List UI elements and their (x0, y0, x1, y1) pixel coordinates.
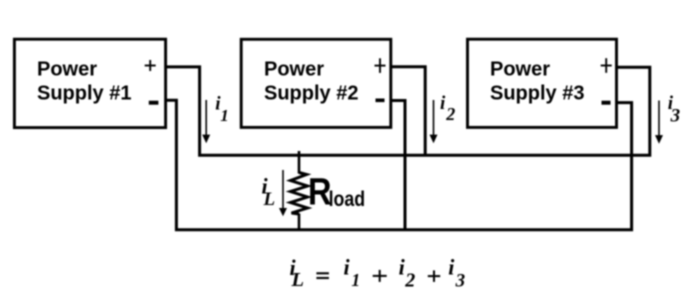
resistor Rload bottom lead (298, 214, 301, 230)
U3 plus terminal (601, 58, 612, 73)
svg-text:Supply #3: Supply #3 (490, 83, 584, 105)
U3 minus terminal (602, 101, 611, 105)
label i2 (440, 93, 455, 124)
svg-text:2: 2 (445, 104, 455, 124)
current arrow iL (279, 170, 287, 216)
wire: U1 minus terminal down, bottom bus rail, up to U3 minus terminal (166, 100, 632, 230)
equation term i1 (344, 255, 361, 290)
power supply U1 label "Power Supply #1" (37, 59, 131, 105)
label iL (262, 174, 276, 210)
svg-text:2: 2 (404, 269, 415, 291)
power supply U1 box (14, 39, 165, 127)
resistor Rload top lead (298, 151, 301, 174)
svg-text:i: i (344, 255, 351, 280)
equation term iL (290, 255, 305, 291)
svg-text:Supply #1: Supply #1 (37, 83, 131, 105)
equation plus sign 1 (373, 270, 387, 282)
equation plus sign 2 (428, 270, 440, 282)
U1 plus terminal (145, 60, 156, 71)
svg-text:3: 3 (455, 271, 466, 292)
wire: U2 plus terminal branch down to top bus (391, 67, 425, 156)
svg-text:L: L (291, 269, 305, 291)
current arrow i2 (430, 100, 438, 143)
equation equals sign (316, 273, 329, 278)
power supply U2 label "Power Supply #2" (264, 59, 358, 105)
svg-text:3: 3 (670, 105, 681, 126)
current arrow i3 (655, 101, 663, 144)
svg-text:1: 1 (351, 270, 360, 290)
svg-text:load: load (329, 188, 366, 211)
power supply U3 box (468, 39, 617, 127)
svg-text:Power: Power (490, 59, 550, 81)
U2 plus terminal (375, 58, 386, 73)
svg-text:Power: Power (264, 59, 324, 81)
svg-text:i: i (440, 93, 446, 114)
equation term i3 (448, 255, 465, 292)
power supply U2 box (241, 39, 391, 127)
current arrow i1 (202, 100, 210, 143)
wire: U1 plus terminal to top bus, top bus rail, up to U3 plus terminal (166, 67, 650, 155)
svg-text:1: 1 (220, 106, 229, 125)
svg-text:Supply #2: Supply #2 (264, 83, 358, 105)
wire: U2 minus terminal branch down to bottom bus (391, 101, 405, 230)
U2 minus terminal (376, 99, 385, 103)
power supply U3 label "Power Supply #3" (490, 59, 584, 105)
svg-text:Power: Power (37, 59, 97, 81)
U1 minus terminal (149, 101, 159, 105)
label i1 (215, 93, 229, 125)
resistor Rload zigzag (291, 173, 308, 215)
svg-text:i: i (448, 255, 455, 280)
label i3 (668, 93, 680, 126)
label Rload (308, 172, 365, 214)
equation term i2 (399, 255, 416, 292)
svg-text:L: L (263, 189, 276, 210)
